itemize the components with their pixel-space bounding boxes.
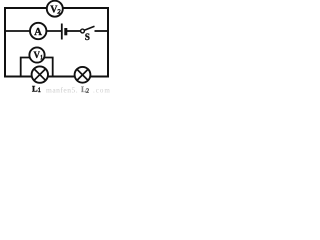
svg-text:.com: .com [93, 87, 111, 95]
switch S lever [84, 26, 94, 30]
voltmeter V1 loop left wire [21, 58, 30, 77]
svg-text:S: S [85, 32, 90, 42]
voltmeter V1 loop right wire [44, 58, 53, 77]
battery cell: short thick plate [64, 28, 67, 35]
wire: outer loop rectangle [5, 8, 108, 77]
ammeter A [30, 23, 46, 39]
voltmeter V2 [47, 1, 63, 17]
wire: battery to switch [67, 30, 82, 32]
lamp L1 [32, 66, 48, 82]
lamp L2 [75, 67, 91, 83]
svg-text:L: L [32, 84, 38, 94]
wire: middle branch (ammeter/battery/switch row) [5, 30, 61, 32]
wire: switch to right rail [95, 30, 109, 32]
switch S pivot [81, 29, 85, 33]
svg-text:V: V [34, 50, 41, 60]
battery cell: long plate [61, 24, 63, 40]
svg-text:manfen5.: manfen5. [46, 86, 78, 95]
svg-text:A: A [34, 27, 42, 38]
voltmeter V1 [29, 47, 44, 62]
